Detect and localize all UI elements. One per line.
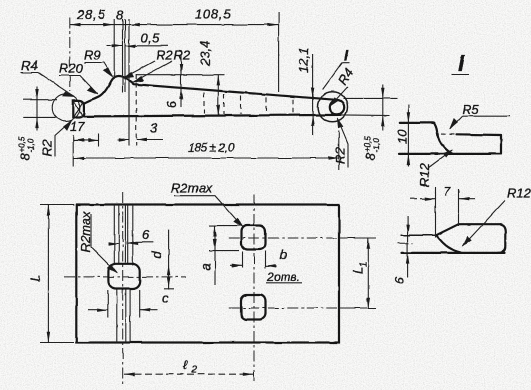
svg-text:R4: R4 bbox=[21, 58, 38, 73]
svg-text:R2: R2 bbox=[40, 139, 55, 156]
svg-text:c: c bbox=[162, 291, 169, 306]
svg-text:6: 6 bbox=[392, 276, 407, 284]
dimension b bbox=[230, 265, 277, 267]
bottom profile: R12 concave curve bbox=[437, 236, 462, 253]
dimension 6 (bottom detail) bbox=[407, 216, 409, 277]
dimension 7 bbox=[410, 198, 475, 200]
svg-text:17: 17 bbox=[70, 119, 85, 134]
eye callout circle bbox=[318, 92, 348, 122]
extension line 108,5 right bbox=[278, 13, 280, 93]
bottom profile: left extension bbox=[401, 234, 437, 236]
bend lines above hole 1 bbox=[113, 205, 115, 265]
svg-text:R2: R2 bbox=[156, 48, 173, 63]
hump / top edge profile bbox=[84, 76, 335, 104]
dimension L bbox=[40, 205, 74, 343]
tip right edge bbox=[500, 135, 502, 154]
centerline column 1 bbox=[122, 192, 124, 384]
svg-text:d: d bbox=[149, 251, 164, 259]
dimension 12,1 bbox=[312, 54, 314, 135]
svg-text:I: I bbox=[458, 50, 465, 76]
svg-text:8: 8 bbox=[116, 8, 124, 23]
svg-text:6: 6 bbox=[164, 100, 179, 108]
vertical line pair 0,5 bbox=[122, 19, 124, 92]
svg-text:+0,5: +0,5 bbox=[18, 136, 27, 152]
dimension 7 extension lines bbox=[436, 187, 459, 238]
plate outline bbox=[76, 205, 339, 343]
dimension b extension lines bbox=[243, 251, 266, 268]
hidden tip edge (dashed) bbox=[441, 133, 457, 135]
wire curl circle left end bbox=[52, 94, 80, 122]
svg-text:2: 2 bbox=[191, 365, 198, 376]
svg-text:R9: R9 bbox=[84, 48, 101, 63]
bottom profile: angled tip edge bbox=[436, 224, 459, 235]
centerline extensions right for L1 bbox=[339, 238, 376, 308]
flat-surface cross mark bbox=[74, 101, 83, 117]
bend lines below hole 1 bbox=[116, 289, 118, 343]
top profile: bottom line bbox=[400, 153, 502, 155]
bottom profile: right rounded edge bbox=[498, 224, 505, 253]
dimension l2 bbox=[124, 373, 254, 375]
svg-text:-1,0: -1,0 bbox=[27, 138, 36, 152]
bottom edge thin extension right bbox=[341, 114, 390, 117]
flattened end D-face bbox=[73, 100, 84, 117]
svg-text:6: 6 bbox=[142, 227, 150, 242]
dashed vertical line bbox=[135, 74, 137, 146]
extension line left end bottom bbox=[72, 135, 74, 167]
svg-text:R20: R20 bbox=[59, 61, 84, 76]
top edge extension right of eye bbox=[343, 97, 397, 99]
svg-text:b: b bbox=[280, 247, 287, 262]
dimension c bbox=[88, 309, 158, 311]
svg-text:+0,5: +0,5 bbox=[363, 136, 372, 152]
svg-text:185 ± 2,0: 185 ± 2,0 bbox=[188, 141, 235, 155]
section ticks along leaf bbox=[203, 93, 205, 114]
leader R2 eye bbox=[337, 118, 348, 168]
centerline column 2 bbox=[253, 195, 255, 383]
dimension 6 (plan) bbox=[108, 242, 153, 244]
top profile: top line bbox=[400, 122, 434, 124]
dimension 3 bbox=[117, 139, 163, 141]
svg-text:R12: R12 bbox=[507, 186, 531, 201]
dimension 0,5 bbox=[106, 45, 168, 47]
extension line 28,5 left (dash-dot) bbox=[69, 18, 71, 92]
vertical line hump right bbox=[128, 19, 130, 146]
svg-text:28,5: 28,5 bbox=[76, 7, 106, 22]
svg-text:8: 8 bbox=[363, 152, 378, 160]
hole 3 bbox=[241, 295, 266, 320]
svg-text:0,5: 0,5 bbox=[141, 31, 161, 46]
vertical line hump left bbox=[113, 19, 115, 79]
dimension d bbox=[164, 230, 174, 290]
svg-text:108,5: 108,5 bbox=[195, 7, 231, 22]
dimension L1 bbox=[367, 238, 369, 308]
dimension a extension lines bbox=[209, 226, 241, 251]
dimension 28,5 / 8 / 108,5 line bbox=[70, 24, 278, 26]
svg-text:L: L bbox=[351, 267, 366, 274]
hole 3 centerline horizontal bbox=[229, 307, 337, 309]
c extension lines bbox=[108, 290, 140, 318]
hole 1 bbox=[108, 264, 139, 289]
extension line 17 right bbox=[98, 134, 100, 147]
svg-text:12,1: 12,1 bbox=[296, 48, 311, 73]
hole 1 centerline horizontal bbox=[64, 276, 186, 278]
hole 2 centerline horizontal bbox=[229, 237, 337, 239]
svg-text:2отв.: 2отв. bbox=[266, 270, 300, 284]
dimension 23,4 bbox=[217, 75, 219, 116]
svg-text:a: a bbox=[198, 263, 213, 270]
dimension 17 bbox=[73, 139, 99, 141]
centerline stub bbox=[398, 242, 413, 244]
peak level extension line bbox=[136, 74, 225, 76]
dimension 10 bbox=[407, 105, 409, 167]
svg-text:3: 3 bbox=[150, 121, 158, 136]
bottom profile: bottom line bbox=[402, 252, 505, 254]
top profile: R5 + R12 curves bbox=[434, 123, 453, 154]
hole 2 bbox=[242, 226, 266, 250]
dimension 8 +0,5/-1,0 left bbox=[23, 100, 57, 118]
svg-text:10: 10 bbox=[395, 129, 410, 144]
extension line 185 right bbox=[338, 131, 340, 170]
svg-text:1: 1 bbox=[358, 261, 368, 266]
svg-text:R2: R2 bbox=[333, 147, 348, 164]
svg-text:R2: R2 bbox=[174, 48, 191, 63]
leader R2 left curl bbox=[55, 121, 72, 157]
tip top edge bbox=[457, 133, 502, 136]
dimension 6 vertical (side) bbox=[180, 54, 182, 107]
svg-text:R2max: R2max bbox=[171, 181, 213, 196]
svg-text:-1,0: -1,0 bbox=[372, 138, 381, 152]
svg-text:L: L bbox=[28, 275, 43, 282]
svg-text:8: 8 bbox=[18, 153, 33, 161]
dimension 8 +0,5/-1,0 right bbox=[382, 84, 384, 131]
eye inner hole bbox=[330, 100, 344, 114]
bottom profile: top edge bbox=[459, 223, 501, 225]
bottom edge bbox=[84, 115, 341, 117]
dimension a bbox=[214, 226, 216, 285]
svg-text:R5: R5 bbox=[462, 102, 479, 117]
svg-text:7: 7 bbox=[444, 184, 452, 199]
dimension 185 +- 2,0 bbox=[74, 157, 339, 159]
svg-text:23,4: 23,4 bbox=[198, 41, 213, 67]
